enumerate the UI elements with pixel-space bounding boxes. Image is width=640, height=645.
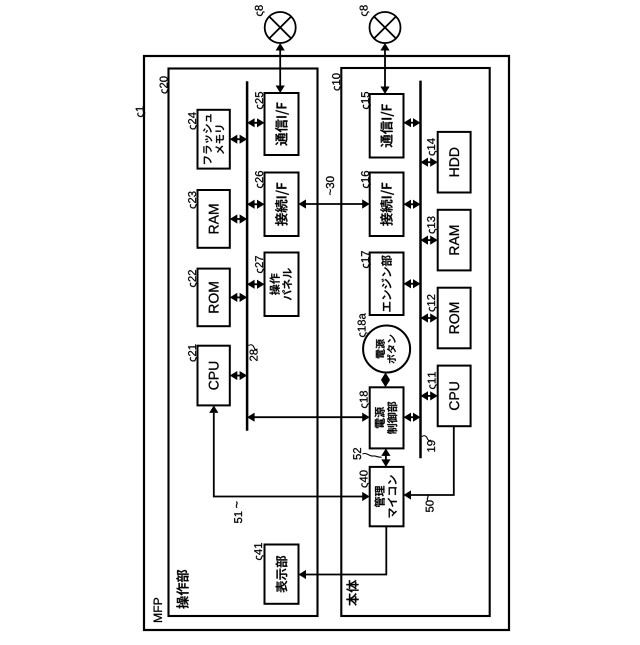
arrow box to bus28 at x=500.8 <box>230 135 247 144</box>
box CPU (11) <box>438 366 471 427</box>
box comm IF (25) <box>265 93 299 155</box>
hook of ref 50 <box>427 495 429 501</box>
text RAM (13) <box>449 226 459 255</box>
hook of ref 52 <box>363 453 382 457</box>
text 26 <box>275 183 289 226</box>
ref 27 <box>255 256 265 273</box>
arrow box to bus28 at x=264.45 <box>230 371 247 380</box>
line micon40 to display 41 <box>299 526 387 579</box>
ref 20 <box>160 76 170 93</box>
ref 22 <box>188 270 198 287</box>
arrow box to bus19 at x=517.3 <box>404 118 421 127</box>
arrow bus28 to box at x=517.2 <box>247 118 264 127</box>
ref 1 <box>136 106 146 117</box>
outer box MFP (1) <box>144 56 509 630</box>
box connect IF (26) <box>265 173 299 237</box>
ref 28 <box>250 349 258 361</box>
arrow box to bus19 at x=435.75 <box>404 200 421 209</box>
box management micon (40) <box>370 467 404 526</box>
line 50 CPU11 to micon40 <box>404 426 454 499</box>
hook of ref 19 <box>422 436 431 441</box>
text 41 <box>276 556 288 593</box>
ref 30 <box>326 176 334 195</box>
text flash line2 <box>216 126 225 154</box>
ref 25 <box>255 92 265 109</box>
box CPU (21) <box>198 346 230 406</box>
box RAM (13) <box>438 210 471 271</box>
box display unit (41) <box>265 545 299 604</box>
ref 51 <box>234 512 242 524</box>
box flash memory (24) <box>198 110 230 169</box>
ref 13 <box>427 217 437 234</box>
ref 19 <box>427 441 435 452</box>
text CPU (21) <box>209 362 219 390</box>
box engine (17) <box>370 253 404 316</box>
ref 18 <box>360 391 370 408</box>
text 27 line1 <box>270 274 280 295</box>
arrow 52 between 40 and 18 <box>381 448 390 467</box>
text 18a line1 <box>376 339 385 358</box>
inner box sousa-bu (20) <box>169 69 318 617</box>
ref 8 #1 <box>255 5 265 16</box>
ref 26 <box>255 171 265 188</box>
ref 11 <box>428 372 438 389</box>
label sousabu <box>176 570 188 609</box>
text 18 line1 <box>375 407 385 428</box>
text 18 line2 <box>387 402 397 434</box>
text 40 line1 <box>374 486 384 507</box>
line bus28 to power control 18 <box>247 413 370 422</box>
arrow comm IF 15 to circle 8 <box>380 43 389 94</box>
arrow bus19 to box at x=399.9 <box>421 236 438 245</box>
box ROM (22) <box>198 269 230 327</box>
text 25 <box>275 103 289 146</box>
bus 19 <box>419 81 422 459</box>
line 51 CPU21 to micon40 <box>209 405 370 501</box>
text ROM (22) <box>209 282 219 312</box>
text 27 line2 <box>282 268 292 300</box>
text 15 <box>380 104 394 147</box>
text 40 line2 <box>388 475 397 517</box>
box power control (18) <box>370 387 404 448</box>
box RAM (23) <box>198 190 230 248</box>
arrow bus28 to box at x=435.75 <box>247 200 264 209</box>
text HDD (14) <box>449 148 459 177</box>
arrow box to bus19 at x=222.8 <box>404 413 421 422</box>
hook of ref 51 <box>236 502 238 508</box>
box operation panel (27) <box>265 253 299 317</box>
box HDD (14) <box>438 132 471 193</box>
text 18a line2 <box>387 335 396 364</box>
ref 40 <box>360 470 370 487</box>
text 17 <box>381 255 392 311</box>
ref 18a <box>358 313 368 337</box>
ref 8 #2 <box>360 5 370 16</box>
label MFP <box>154 598 162 622</box>
box connect IF (16) <box>370 173 404 237</box>
arrow bus19 to box at x=244.1 <box>421 391 438 400</box>
network circle 8 #2 <box>370 12 401 43</box>
ref 17 <box>361 251 371 268</box>
ref 15 <box>361 92 371 109</box>
arrow bus19 to box at x=322.0 <box>421 313 438 322</box>
text RAM (23) <box>209 205 219 234</box>
arrow box to bus19 at x=356.25 <box>404 279 421 288</box>
box ROM (12) <box>438 288 471 349</box>
arrow bus28 to box at x=355.75 <box>247 280 264 289</box>
ref 21 <box>188 345 198 362</box>
text CPU (11) <box>449 382 459 410</box>
text flash line1 <box>203 114 212 164</box>
network circle 8 #1 <box>265 12 296 43</box>
ref 10 <box>332 73 342 90</box>
hook of ref 28 <box>249 345 258 350</box>
ref 41 <box>254 543 264 560</box>
arrow between 18 and 18a <box>381 373 390 388</box>
bus 28 <box>246 81 249 431</box>
ref 14 <box>427 138 437 155</box>
ref 16 <box>361 171 371 188</box>
inner box hontai (10) <box>341 68 489 616</box>
arrow box to bus28 at x=342.6 <box>230 293 247 302</box>
box comm IF (15) <box>370 94 404 158</box>
text 16 <box>380 183 394 226</box>
label hontai <box>346 580 358 606</box>
ref 50 <box>426 500 434 512</box>
ref 23 <box>188 192 198 209</box>
arrow box to bus28 at x=421.0 <box>230 214 247 223</box>
ref 24 <box>188 112 198 129</box>
ref 52 <box>353 448 361 460</box>
arrow comm IF 25 to circle 8 <box>276 43 285 93</box>
arrow bus19 to box at x=477.8 <box>421 158 438 167</box>
power button circle (18a) <box>363 326 410 373</box>
text ROM (12) <box>449 303 459 333</box>
ref 12 <box>427 295 437 312</box>
arrow 30 between 26 and 16 <box>299 199 370 208</box>
